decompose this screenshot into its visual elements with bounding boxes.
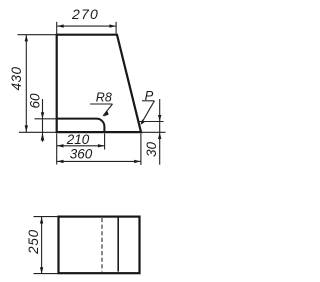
P arrowhead [139, 119, 145, 126]
bottom edge extension right (30 bottom) [141, 131, 166, 133]
arrow 60 bottom (outside pointing up) [41, 133, 45, 141]
svg-text:430: 430 [9, 66, 24, 90]
extension line 250 bottom [34, 273, 59, 275]
dimension line 270 [57, 25, 116, 27]
part outline (top view) [57, 35, 141, 132]
dimension line 210 [57, 145, 104, 147]
arrow 430 bottom [25, 125, 28, 132]
arrow 250 bottom [40, 267, 43, 274]
inner visible edge [117, 218, 119, 272]
dimension line 360 [57, 160, 141, 162]
svg-text:210: 210 [66, 132, 90, 147]
svg-text:R8: R8 [96, 91, 112, 105]
R8 leader line [103, 104, 113, 116]
extension line P corner (30 top) [139, 121, 164, 123]
svg-text:360: 360 [70, 146, 93, 161]
hidden (dashed) edge [101, 218, 103, 272]
arrow 30 bottom (outside pointing up) [158, 133, 161, 140]
dimension line 30 [159, 99, 161, 165]
dimension line 250 [41, 217, 43, 274]
arrow 250 top [40, 217, 43, 224]
arrow 30 top (outside pointing down) [158, 115, 161, 122]
arrow 360 right [134, 160, 141, 163]
extension line 360 right [140, 134, 142, 166]
extension line 210 middle [104, 134, 106, 150]
dimension line 430 [25, 35, 27, 132]
P leader line [141, 101, 154, 124]
bottom edge extension left (430 bottom) [19, 131, 57, 133]
arrow 270 left [57, 24, 64, 27]
internal step with fillet [57, 119, 105, 133]
bottom view rectangle [59, 217, 140, 274]
svg-text:60: 60 [27, 93, 42, 109]
arrow 210 right [98, 144, 105, 147]
svg-text:270: 270 [71, 6, 99, 22]
dimension line 60 [42, 99, 44, 142]
extension line 250 top [34, 216, 59, 218]
arrow 210 left [57, 144, 64, 147]
extension line step left (60 top) [35, 118, 57, 120]
arrow 360 left [57, 160, 64, 163]
extension line left tail (210/360) [56, 134, 58, 165]
arrow 270 right [109, 24, 116, 27]
arrow 60 top (outside pointing down) [41, 112, 44, 119]
R8 arrowhead [103, 110, 110, 118]
extension line top-left (430 top) [18, 34, 57, 36]
svg-text:30: 30 [144, 142, 159, 158]
arrow 430 top [25, 35, 28, 42]
extension line 270 right [115, 22, 117, 34]
extension line 270 left (edge extended up) [56, 22, 58, 35]
R8 leader underline [90, 103, 113, 105]
P leader underline [142, 100, 154, 102]
svg-text:250: 250 [26, 229, 41, 255]
